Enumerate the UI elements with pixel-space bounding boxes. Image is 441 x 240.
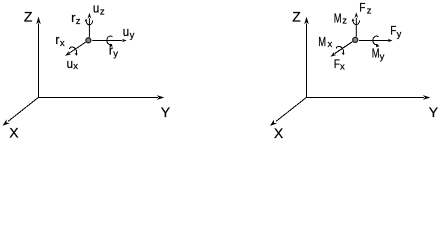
- label F_z: [359, 0, 372, 16]
- svg-text:x: x: [328, 39, 333, 50]
- right origin dot: [353, 37, 358, 42]
- svg-text:F: F: [334, 57, 340, 71]
- svg-text:y: y: [397, 29, 402, 40]
- right frame X axis: [270, 98, 306, 126]
- rotation arc M_z: [352, 18, 360, 24]
- label r_x: [55, 32, 65, 49]
- label u_z: [93, 1, 105, 18]
- left frame X axis: [3, 98, 39, 126]
- vector u_z arrow: [88, 13, 92, 38]
- svg-text:z: z: [367, 5, 372, 16]
- vector u_x arrow: [65, 42, 86, 56]
- rotation arc r_x: [69, 47, 77, 56]
- svg-text:Z: Z: [292, 8, 301, 24]
- vector u_y arrow: [92, 39, 126, 42]
- svg-text:y: y: [130, 30, 135, 41]
- svg-text:M: M: [318, 34, 326, 49]
- svg-text:z: z: [342, 16, 347, 27]
- label u_y: [123, 24, 135, 41]
- label u_x: [67, 56, 79, 72]
- label F_x: [334, 57, 345, 73]
- svg-text:y: y: [113, 49, 118, 60]
- label M_y: [372, 45, 385, 62]
- svg-text:u: u: [123, 24, 129, 39]
- svg-text:X: X: [9, 125, 19, 141]
- left frame Z axis: [36, 17, 41, 98]
- vector F_y arrow: [359, 39, 393, 42]
- label r_z: [71, 10, 81, 27]
- svg-text:x: x: [340, 62, 345, 73]
- svg-text:u: u: [67, 56, 73, 71]
- label M_x: [318, 34, 332, 50]
- vector F_z arrow: [354, 12, 358, 37]
- rotation arc r_y: [107, 36, 113, 47]
- svg-text:F: F: [390, 24, 396, 38]
- svg-text:x: x: [73, 61, 78, 72]
- svg-text:x: x: [60, 38, 65, 49]
- svg-text:Y: Y: [429, 104, 439, 120]
- svg-text:u: u: [93, 1, 99, 16]
- svg-text:F: F: [359, 0, 365, 14]
- rotation arc M_x: [336, 46, 344, 55]
- svg-text:X: X: [274, 125, 284, 141]
- rotation arc r_z: [85, 19, 93, 25]
- svg-text:Z: Z: [24, 8, 33, 24]
- svg-text:Y: Y: [161, 104, 171, 120]
- left origin dot: [86, 38, 91, 43]
- label M_z: [334, 11, 347, 27]
- svg-text:z: z: [76, 16, 81, 27]
- right frame Y axis: [306, 95, 430, 100]
- left frame Y axis: [38, 95, 164, 100]
- vector F_x arrow: [330, 42, 352, 57]
- svg-text:y: y: [380, 51, 385, 62]
- rotation arc M_y: [373, 36, 380, 47]
- svg-text:z: z: [100, 7, 105, 18]
- right frame Z axis: [304, 17, 309, 98]
- svg-text:M: M: [334, 11, 342, 26]
- label F_y: [390, 24, 401, 40]
- label r_y: [109, 43, 119, 60]
- svg-text:M: M: [372, 45, 380, 60]
